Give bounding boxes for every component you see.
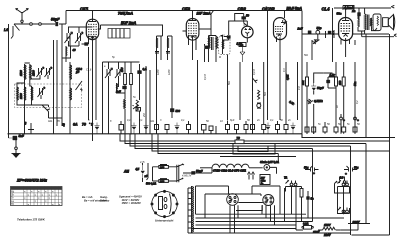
svg-text:2n: 2n: [256, 119, 260, 122]
svg-text:150V = 40/220V: 150V = 40/220V: [122, 201, 142, 205]
svg-text:M0,5 5mA: M0,5 5mA: [287, 7, 303, 11]
jack J2: [338, 176, 350, 215]
svg-text:1100: 1100: [19, 70, 23, 76]
switch S6: [177, 164, 184, 182]
anode wire 0,5mA label: [285, 7, 303, 134]
shield box T2: [219, 37, 231, 55]
terminal plug +a: [340, 114, 345, 134]
electrolytic E2 50uF: [344, 166, 359, 176]
svg-text:200: 200: [159, 166, 165, 169]
resistor bar 200 a: [153, 165, 177, 170]
svg-text:50n: 50n: [337, 12, 342, 16]
plug P3: [16, 138, 17, 147]
coil L12: [124, 99, 125, 109]
svg-text:500 0,1A: 500 0,1A: [146, 183, 156, 186]
mains switch S7: [335, 177, 351, 193]
coil T2 secondary: [215, 36, 217, 52]
screen bus CK1: [101, 21, 163, 36]
svg-text:Unteransicht: Unteransicht: [155, 219, 174, 223]
svg-text:+: +: [345, 172, 347, 176]
svg-text:C/CH2: C/CH2: [262, 7, 275, 12]
term electro: [175, 123, 180, 134]
wire detour U2: [233, 144, 275, 155]
svg-text:50nF: 50nF: [196, 169, 203, 173]
speaker wires: [353, 31, 397, 37]
coil L3: [66, 46, 76, 56]
svg-text:Drehko: Drehko: [100, 198, 110, 202]
plug P1: [30, 23, 33, 26]
coil L11: [117, 83, 118, 90]
term resistor: [235, 125, 239, 134]
svg-text:1100: 1100: [168, 69, 171, 75]
svg-text:1nF: 1nF: [116, 90, 121, 94]
trimmer C2: [75, 32, 83, 43]
term resistor: [305, 127, 309, 134]
dial lamp: [260, 160, 279, 174]
svg-text:4,5: 4,5: [135, 167, 140, 171]
tube heater socket H1: [227, 194, 239, 206]
chassis rail: [8, 134, 396, 138]
svg-text:50n: 50n: [228, 80, 231, 85]
tube CCH2: [262, 7, 287, 61]
term resistor: [262, 120, 266, 134]
svg-text:10F 2mA: 10F 2mA: [197, 12, 212, 16]
resistor box 1nF: [239, 43, 246, 63]
svg-text:100: 100: [120, 67, 124, 72]
svg-text:50n: 50n: [304, 54, 309, 57]
note text mid: [100, 195, 142, 206]
mains 220V wire: [348, 220, 370, 224]
capacitor 5nF blob: [123, 86, 127, 89]
plug 3: [28, 123, 34, 134]
resistor R1: [120, 67, 127, 84]
band switch assembly: [123, 163, 212, 186]
svg-text:CF3: CF3: [182, 7, 191, 12]
svg-text:10k: 10k: [301, 80, 305, 85]
diode D1: [135, 165, 149, 178]
svg-text:70: 70: [237, 136, 241, 140]
svg-text:1100: 1100: [157, 69, 160, 75]
svg-text:50µ: 50µ: [354, 166, 359, 170]
speaker LS: [383, 15, 395, 30]
resistor R2: [130, 74, 133, 85]
svg-text:0A1: 0A1: [150, 120, 155, 123]
fuse F1: [302, 222, 313, 230]
svg-text:0,1: 0,1: [139, 119, 143, 122]
wires trimmers: [68, 27, 93, 46]
svg-text:LS: LS: [340, 176, 344, 180]
pickup jack J1: [284, 176, 298, 215]
wire left rail: [8, 24, 10, 138]
wire detour U1: [238, 146, 268, 152]
svg-text:+: +: [313, 171, 315, 175]
wire mid: [220, 156, 296, 158]
svg-text:ECF 2mA: ECF 2mA: [121, 21, 137, 25]
svg-text:5n: 5n: [311, 197, 314, 201]
resistor R6: [338, 62, 345, 127]
trimmer C8: [115, 68, 123, 78]
trimmer C3: [37, 67, 45, 77]
coil assembly shield: [15, 84, 82, 108]
svg-text:2nF: 2nF: [297, 27, 303, 31]
capacitor blob at CK1 cathode: [85, 43, 89, 46]
capacitor 50nF: [183, 168, 212, 175]
heater chain: [200, 164, 263, 172]
ground: [12, 150, 21, 158]
term resistor: [187, 121, 191, 134]
term electro: [144, 123, 149, 134]
svg-text:3: 3: [25, 122, 27, 126]
svg-text:220V: 220V: [323, 233, 332, 237]
terminal plug +b: [354, 114, 359, 134]
svg-text:Skala 6,3V 0,3A: Skala 6,3V 0,3A: [260, 160, 279, 164]
svg-text:ZF=468/472 kHz: ZF=468/472 kHz: [16, 178, 47, 183]
svg-text:CB2: CB2: [238, 7, 247, 12]
electrolytic 50uF: [311, 83, 324, 90]
capacitor 500pF: [170, 109, 174, 112]
coil L5: [30, 64, 36, 81]
svg-text:AM: AM: [123, 170, 129, 174]
svg-text:4,8/6,3V: 4,8/6,3V: [182, 175, 192, 178]
box above H2: [260, 175, 270, 186]
svg-text:50µ: 50µ: [304, 166, 309, 170]
term resistor: [244, 121, 248, 134]
svg-text:50p: 50p: [317, 26, 322, 30]
svg-text:C1,6: C1,6: [86, 69, 92, 72]
resistor bar 200 b: [153, 179, 177, 184]
svg-text:50µF: 50µF: [317, 86, 324, 90]
zigzag R4: [258, 90, 260, 100]
svg-text:+: +: [343, 118, 345, 122]
term resistor: [342, 127, 346, 134]
term electro: [132, 123, 137, 134]
term resistor: [334, 127, 338, 134]
capacitor C12: [328, 31, 331, 34]
wires coil assembly: [17, 38, 70, 134]
speaker return wire: [352, 34, 390, 235]
IF transformer T2: [205, 21, 248, 121]
trimmer C5 row2: [38, 87, 46, 97]
svg-text:200: 200: [159, 180, 165, 183]
svg-text:150: 150: [338, 80, 342, 85]
output transformer T3: [358, 8, 372, 35]
plug P2: [39, 23, 42, 26]
trimmer C4: [45, 67, 53, 77]
capacitor C14: [307, 191, 314, 218]
capacitor C11: [308, 31, 311, 34]
term resistor: [119, 121, 124, 134]
trimmer C1: [65, 32, 73, 43]
svg-text:0,1: 0,1: [181, 119, 185, 122]
potentiometer 0.5M: [307, 99, 323, 104]
svg-text:150V: 150V: [324, 223, 332, 227]
anode supply bus: [66, 11, 302, 16]
capacitor C13 50n: [337, 8, 361, 20]
tube CB2: [238, 7, 254, 43]
value labels scatter: [48, 24, 360, 178]
sub rail wires: [120, 134, 390, 235]
B+ top line: [334, 5, 394, 8]
svg-text:0A: 0A: [73, 123, 78, 127]
svg-text:2n: 2n: [351, 9, 356, 13]
svg-text:0,1M: 0,1M: [204, 74, 207, 80]
svg-text:50pF: 50pF: [51, 18, 60, 22]
capacitor 5nF to ground: [9, 134, 25, 140]
svg-text:5nF: 5nF: [19, 134, 25, 138]
svg-text:8µF: 8µF: [230, 119, 235, 122]
svg-text:40: 40: [72, 48, 77, 52]
svg-text:0,1: 0,1: [270, 119, 274, 122]
svg-text:50: 50: [246, 14, 250, 18]
svg-text:pF: pF: [75, 70, 80, 74]
svg-text:0,1M: 0,1M: [253, 69, 256, 75]
heater pin contacts: [248, 172, 255, 180]
capacitor blob T2a: [205, 46, 209, 49]
RF coil block wires: [54, 11, 67, 135]
resistor R8: [300, 189, 303, 198]
term resistor: [312, 127, 316, 134]
switch S5: [253, 78, 258, 91]
svg-text:+: +: [357, 118, 359, 122]
speaker field housing: [371, 14, 381, 31]
right mid rails: [286, 40, 357, 134]
term electro: [95, 123, 100, 134]
term resistor: [276, 121, 280, 134]
term resistor: [209, 126, 216, 134]
coil L13 in box: [223, 39, 224, 51]
term resistor: [284, 120, 288, 134]
svg-text:TK: TK: [11, 203, 15, 206]
electrolytic E1 50uF: [304, 166, 319, 176]
tube socket bottom view: [151, 190, 178, 222]
coil L7 row2: [19, 86, 26, 102]
tube CK1: [80, 7, 101, 142]
svg-text:TA: TA: [284, 176, 287, 180]
resistor 70 on rail: [235, 136, 244, 144]
svg-text:0,2: 0,2: [356, 100, 359, 104]
coil T2 primary: [208, 36, 210, 52]
svg-text:0A1: 0A1: [48, 120, 53, 123]
detector network: [253, 11, 367, 138]
coil L9 upper right: [70, 64, 82, 81]
term resistor: [323, 122, 327, 134]
capacitor blob T2b: [227, 36, 230, 39]
svg-text:4,7k: 4,7k: [140, 161, 145, 164]
wires osc: [103, 62, 140, 135]
plug P4: [316, 30, 320, 34]
lamp GL: [257, 104, 261, 108]
svg-text:1,5k: 1,5k: [330, 73, 336, 77]
jack J3: [338, 207, 350, 214]
potentiometer R3: [133, 100, 141, 111]
filter box F2: [108, 29, 130, 39]
heater wiring bus: [192, 186, 351, 233]
svg-text:1100: 1100: [32, 70, 36, 76]
coil L4: [19, 64, 26, 81]
coil L10 lower right: [70, 87, 72, 102]
connection table: [11, 187, 63, 207]
tube CL4: [322, 7, 353, 58]
current label 4,3mA: [343, 6, 354, 11]
svg-text:Telefunken 175 GWK: Telefunken 175 GWK: [17, 218, 46, 222]
svg-text:50n: 50n: [264, 91, 267, 96]
power transformer W1: [188, 186, 194, 233]
trimmer C6 row2 right: [76, 81, 83, 91]
IF transformer T1: [155, 36, 172, 134]
note text right of table: [82, 195, 107, 203]
svg-text:0,1: 0,1: [127, 119, 131, 122]
svg-text:500: 500: [176, 109, 181, 113]
tube heater socket H2: [263, 195, 274, 206]
trimmer C7: [105, 68, 113, 78]
svg-text:Ba = mA: Ba = mA: [82, 195, 93, 199]
wire AVC lines: [146, 60, 198, 134]
term resistor: [226, 121, 230, 134]
term resistor: [251, 125, 255, 134]
term electro: [266, 123, 271, 134]
svg-text:70/5,7mA: 70/5,7mA: [118, 12, 133, 16]
coupling cluster: [327, 80, 330, 83]
band switch S1 arm: [11, 23, 22, 39]
switch arm S2: [32, 105, 51, 118]
svg-text:CY10 CB2 CL4 CF3 CK1: CY10 CB2 CL4 CF3 CK1: [213, 168, 246, 172]
voltage selector R9: [313, 223, 340, 237]
wire antenna input: [14, 23, 66, 25]
anode feed label CF3: [197, 11, 214, 30]
resistor R5: [301, 77, 309, 86]
oscillator section components: [103, 60, 198, 135]
antenna A1: [16, 8, 29, 22]
capacitor 50pF antenna: [51, 18, 60, 27]
tube CF3: [182, 7, 211, 61]
capacitor 50pF at CB2: [235, 14, 250, 26]
screen feed vertical: [332, 8, 334, 62]
svg-text:220V: 220V: [352, 220, 361, 224]
svg-text:0,5MΩ: 0,5MΩ: [314, 99, 323, 103]
term resistor: [353, 127, 357, 134]
term resistor: [155, 122, 159, 134]
rail terminations row: [25, 8, 360, 134]
zigzag tone R7: [312, 40, 320, 45]
wires T2: [205, 21, 248, 121]
term electro: [291, 123, 296, 134]
svg-text:0,2A: 0,2A: [303, 222, 309, 226]
capacitor C9 0,1: [138, 71, 142, 74]
svg-text:0,3: 0,3: [283, 68, 286, 72]
svg-text:1n: 1n: [240, 43, 244, 47]
CL4 grid network: [297, 26, 339, 60]
coil L6 row2: [17, 86, 18, 102]
term resistor: [202, 125, 207, 134]
coil L8 row2: [32, 86, 33, 102]
svg-text:2n: 2n: [287, 119, 291, 122]
svg-text:1100: 1100: [19, 93, 23, 99]
mains wires: [340, 224, 358, 231]
term resistor: [165, 125, 169, 134]
svg-text:3: 3: [91, 123, 93, 127]
svg-text:CL4: CL4: [322, 7, 331, 12]
svg-text:70: 70: [82, 123, 86, 127]
svg-text:L4: L4: [4, 28, 8, 32]
